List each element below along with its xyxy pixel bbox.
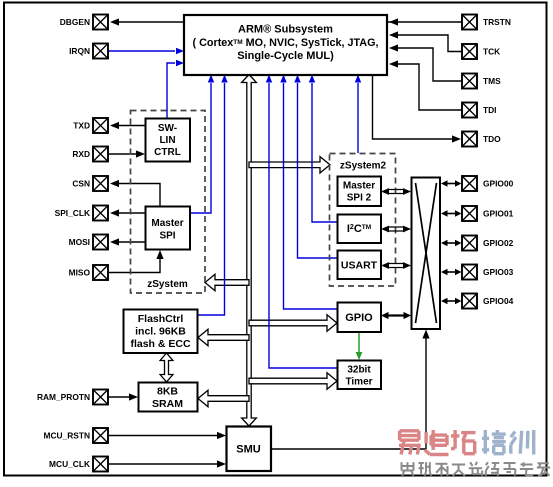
- svg-text:USART: USART: [341, 260, 378, 272]
- svg-text:Master: Master: [343, 181, 375, 192]
- svg-text:GPIO03: GPIO03: [483, 267, 514, 277]
- svg-text:TCK: TCK: [483, 47, 500, 57]
- svg-text:8KB: 8KB: [157, 386, 178, 398]
- svg-text:GPIO00: GPIO00: [483, 179, 514, 189]
- svg-text:GPIO: GPIO: [345, 312, 373, 324]
- svg-text:ARM® Subsystem: ARM® Subsystem: [238, 24, 333, 36]
- svg-text:SPI 2: SPI 2: [347, 193, 372, 204]
- svg-text:MISO: MISO: [69, 268, 91, 278]
- svg-text:( CortexTM MO, NVIC, SysTick,: ( CortexTM MO, NVIC, SysTick, JTAG,: [193, 37, 379, 49]
- svg-text:Timer: Timer: [345, 377, 372, 388]
- svg-text:SMU: SMU: [236, 444, 261, 456]
- svg-text:FlashCtrl: FlashCtrl: [138, 313, 184, 325]
- svg-text:MCU_RSTN: MCU_RSTN: [43, 431, 90, 441]
- svg-text:TMS: TMS: [483, 76, 501, 86]
- svg-text:flash & ECC: flash & ECC: [130, 338, 191, 350]
- svg-text:zSystem2: zSystem2: [340, 161, 387, 172]
- svg-text:Single-Cycle MUL): Single-Cycle MUL): [237, 50, 334, 62]
- svg-text:RXD: RXD: [72, 149, 90, 159]
- svg-text:GPIO04: GPIO04: [483, 296, 514, 306]
- svg-text:SPI: SPI: [159, 231, 175, 242]
- svg-text:zSystem: zSystem: [147, 279, 188, 290]
- svg-text:TDI: TDI: [483, 105, 497, 115]
- svg-text:MCU_CLK: MCU_CLK: [49, 459, 90, 469]
- svg-text:GPIO02: GPIO02: [483, 238, 514, 248]
- svg-text:incl. 96KB: incl. 96KB: [135, 326, 186, 338]
- svg-text:TRSTN: TRSTN: [483, 17, 511, 27]
- svg-text:RAM_PROTN: RAM_PROTN: [37, 392, 90, 402]
- svg-text:IRQN: IRQN: [69, 46, 90, 56]
- svg-text:TXD: TXD: [73, 121, 90, 131]
- svg-text:LIN: LIN: [159, 135, 175, 146]
- svg-text:SW-: SW-: [158, 123, 177, 134]
- svg-text:CTRL: CTRL: [154, 147, 181, 158]
- svg-text:CSN: CSN: [72, 179, 90, 189]
- svg-text:TDO: TDO: [483, 134, 501, 144]
- svg-text:GPIO01: GPIO01: [483, 209, 514, 219]
- svg-text:Master: Master: [151, 218, 183, 229]
- svg-text:DBGEN: DBGEN: [60, 17, 90, 27]
- svg-text:MOSI: MOSI: [69, 237, 90, 247]
- svg-text:32bit: 32bit: [347, 365, 371, 376]
- svg-text:SPI_CLK: SPI_CLK: [55, 208, 90, 218]
- svg-text:SRAM: SRAM: [152, 398, 183, 410]
